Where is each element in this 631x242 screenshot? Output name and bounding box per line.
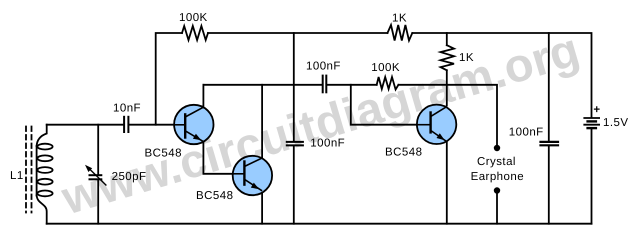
wire: Q1 collector up [202,85,204,107]
inductor L1 loop 5 [37,191,52,197]
wire: Q2 emitter to ground [261,193,263,224]
wire: base wire from coil to Q1 with 10nF gap [47,124,124,126]
wire: 10nF to Q1 base [129,124,174,126]
wire: second rail y84 cap to 100K [327,84,377,86]
inductor L1 coil left spine [36,146,38,196]
node: earphone top terminal [494,145,500,151]
svg-text:100K: 100K [371,62,400,74]
node: earphone bottom terminal [494,187,500,193]
svg-text:L1: L1 [10,170,24,182]
svg-text:BC548: BC548 [385,147,422,159]
resistor R4 100K (middle) [377,77,399,90]
svg-text:100nF: 100nF [310,137,345,149]
wire: varactor branch lower [97,180,99,224]
wire: node B vertical below cap to ground [293,146,295,224]
wire: Q3 base L path [351,85,417,125]
wire: top rail 100K to 1K [208,32,388,34]
resistor R2 1K (top) [388,25,413,41]
svg-text:Crystal: Crystal [477,156,516,168]
resistor R1 100K (top left) [182,26,208,40]
transistor Q3 BC548 [417,105,456,144]
svg-text:+: + [593,104,600,116]
wire: bottom ground rail [47,223,592,225]
svg-text:100nF: 100nF [306,60,341,72]
svg-text:1K: 1K [459,52,474,64]
svg-text:1.5V: 1.5V [603,117,628,129]
wire: top rail left segment (corner to 100K) [156,33,182,125]
svg-text:10nF: 10nF [113,102,141,114]
capacitor C1 10nF plates [123,117,125,132]
wire: Q1 emitter to Q2 base L path [203,142,232,174]
battery B1 1.5V plates [584,117,599,119]
wire: Q3 emitter to ground [446,142,448,224]
capacitor C4 100nF plates [541,141,559,143]
inductor L1 loop 4 [37,179,52,185]
capacitor C2 100nF plates [322,76,324,93]
svg-text:100K: 100K [179,12,208,24]
svg-text:BC548: BC548 [145,148,182,160]
wire: top rail right segment to battery [412,33,591,117]
wire: node B vertical from top rail through y84 to cap [293,33,295,141]
wire: second rail y84 left part [203,84,322,86]
inductor L1 loop 3 [37,167,52,173]
inductor L1 coil top stub [37,125,47,146]
transistor Q2 BC548 [233,156,272,195]
svg-text:BC548: BC548 [196,190,233,202]
svg-text:250pF: 250pF [112,171,147,183]
svg-text:1K: 1K [392,12,407,24]
ferrite rod dashed line 1 [25,127,27,213]
arrow of variable capacitor [89,168,106,185]
inductor L1 loop 1 [37,144,52,150]
wire: 100nF C4 branch upper [548,33,550,141]
wire: earphone lower lead [496,191,498,224]
wire: 1K bottom lead to Q3 collector (crosses y84) [446,70,448,105]
inductor L1 loop 2 [37,155,52,161]
arrowhead of variable capacitor [85,165,92,172]
wire: 1K vertical top lead [446,33,448,45]
wire: second rail y84 right to earphone corner [398,85,497,146]
transistor Q1 BC548 [174,105,213,144]
ferrite rod dashed line 2 [31,127,33,213]
wire: Q2 collector up to y84 [261,85,263,159]
wire: varactor branch upper [97,125,99,175]
svg-text:Earphone: Earphone [471,171,524,183]
wire: 100nF C4 branch lower [548,146,550,224]
variable capacitor C5 250pF plates [90,174,102,176]
svg-text:100nF: 100nF [509,127,544,139]
inductor L1 coil bottom stub [37,196,47,224]
wire: battery bottom lead [591,129,593,224]
resistor R3 1K (vertical) [441,45,455,70]
capacitor C3 100nF plates [287,141,303,143]
